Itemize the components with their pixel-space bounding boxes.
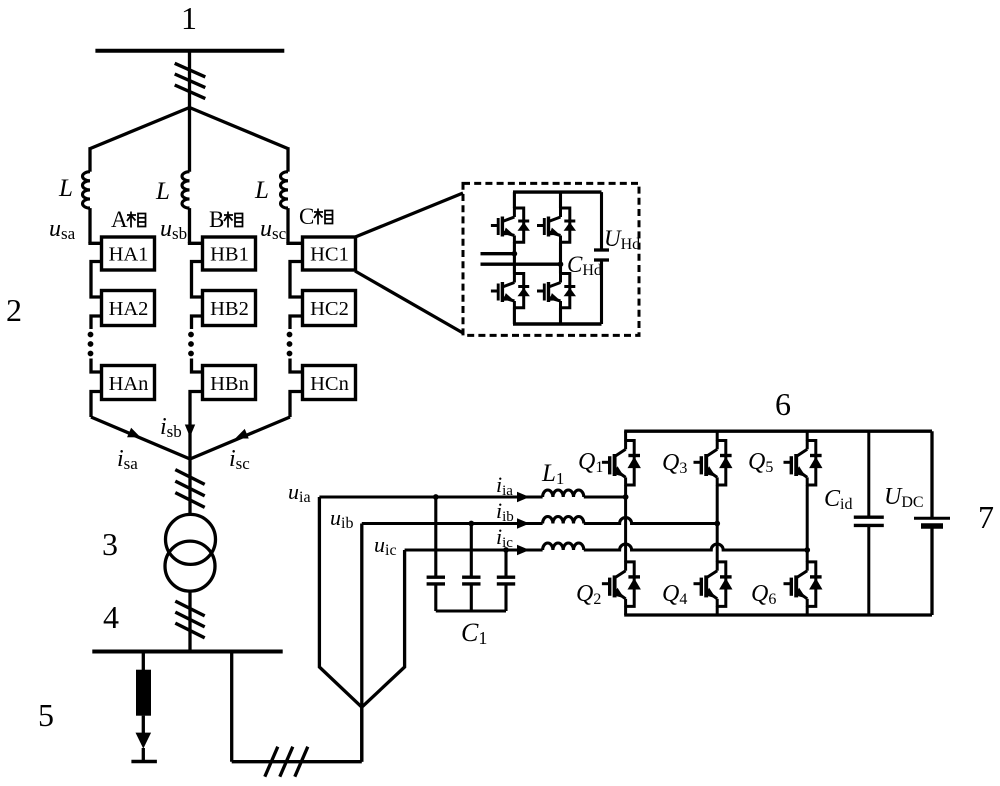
capacitor C1a wire xyxy=(434,497,437,577)
inductor L1 phase c xyxy=(543,543,584,550)
H-bridge top rail xyxy=(513,190,602,193)
svg-text:HA1: HA1 xyxy=(109,244,149,266)
wire HC1 to HC2 xyxy=(290,262,303,298)
H-bridge bottom rail xyxy=(513,322,602,325)
capacitor C_id bottom wire xyxy=(867,525,870,615)
wire bottom horizontal link xyxy=(232,760,362,763)
wire diagonal C to star point xyxy=(190,417,290,459)
svg-text:2: 2 xyxy=(6,292,22,328)
wire fan left diagonal xyxy=(90,108,190,149)
svg-text:4: 4 xyxy=(103,599,119,635)
svg-text:HB1: HB1 xyxy=(210,244,249,266)
isolator slashes above transformer xyxy=(175,470,204,485)
transformer T primary winding xyxy=(166,514,216,564)
IGBT Q4 xyxy=(694,561,733,607)
leg2 mid wire xyxy=(716,485,719,562)
wire HCn output xyxy=(290,392,303,418)
node C1a tap xyxy=(433,494,439,500)
wire phase B drop xyxy=(188,108,191,172)
node left leg midpoint xyxy=(512,251,518,257)
callout line lower xyxy=(355,271,463,333)
wire into HCn xyxy=(290,359,303,373)
bus 1 xyxy=(95,49,284,53)
wire coil a to leg xyxy=(584,495,626,498)
IGBT T1 (inset top-left) xyxy=(491,208,530,243)
H-bridge module HAn xyxy=(102,366,155,400)
IGBT Q3 xyxy=(694,440,733,486)
H-bridge module HBn xyxy=(203,366,256,400)
wire below HC2 xyxy=(290,316,303,329)
leg2 top wire xyxy=(716,431,719,440)
node C1b tap xyxy=(468,521,474,527)
svg-text:L: L xyxy=(254,177,269,204)
dashed detail box xyxy=(463,183,639,335)
capacitor C_id plates xyxy=(854,516,884,519)
wire u_ic diagonal xyxy=(362,550,405,707)
wire HBn output xyxy=(190,392,203,460)
capacitor C1a lower wire xyxy=(434,584,437,611)
H-bridge module HA1 xyxy=(102,237,155,270)
wire bus4 to load xyxy=(142,652,145,671)
wire coil b to leg1 hop xyxy=(584,518,717,524)
wire coil c with two hops xyxy=(584,544,807,550)
svg-text:HA2: HA2 xyxy=(109,298,149,320)
wire into HA1 xyxy=(90,242,102,243)
H-bridge left leg middle wire xyxy=(513,242,516,273)
leg3 top wire xyxy=(806,431,809,440)
battery U_DC short plate xyxy=(921,523,943,529)
battery U_DC long plate xyxy=(914,517,950,520)
H-bridge module HC2 xyxy=(303,291,356,326)
capacitor C_Hd bottom wire xyxy=(600,260,603,324)
svg-text:5: 5 xyxy=(38,697,54,733)
svg-text:6: 6 xyxy=(775,386,791,422)
IGBT T4 (inset bottom-right) xyxy=(537,273,576,308)
wire into HC1 xyxy=(288,242,303,243)
capacitor C1b plates xyxy=(462,576,480,579)
capacitor C1a plates xyxy=(427,576,445,579)
leg2 bottom wire xyxy=(716,606,719,615)
inductor L phase B xyxy=(182,172,190,208)
wire HA1 to HA2 xyxy=(91,262,102,298)
ellipsis dots column A xyxy=(88,332,94,338)
svg-text:1: 1 xyxy=(181,0,197,36)
H-bridge left leg bottom wire xyxy=(513,308,516,324)
IGBT Q2 xyxy=(602,561,641,607)
capacitor C1c lower wire xyxy=(504,584,507,611)
capacitor C_Hd plates xyxy=(594,248,609,251)
node right leg midpoint xyxy=(558,261,564,267)
wire phase C drop xyxy=(286,147,289,172)
load impedance (filled bar) xyxy=(136,670,151,716)
inverter bottom rail xyxy=(624,613,932,616)
wire transformer to bus 4 xyxy=(188,591,191,652)
hanzi 相 (phase) C xyxy=(314,209,333,225)
capacitor bank bottom bus xyxy=(436,609,506,612)
IGBT Q1 xyxy=(602,440,641,486)
svg-text:HCn: HCn xyxy=(310,373,349,395)
wire bus1 to fan point xyxy=(188,51,191,108)
H-bridge right leg bottom wire xyxy=(559,308,562,324)
svg-text:HBn: HBn xyxy=(210,373,249,395)
capacitor C1b wire xyxy=(470,524,473,578)
wire below HA2 xyxy=(91,316,102,329)
wire phase c to coil xyxy=(405,548,543,551)
battery U_DC top wire xyxy=(930,431,933,518)
H-bridge module HB2 xyxy=(203,291,256,326)
isolator slash marks on feeder xyxy=(175,63,206,77)
wire into HB1 xyxy=(190,242,203,243)
svg-text:7: 7 xyxy=(978,499,994,535)
H-bridge module HC1 xyxy=(303,237,356,270)
svg-text:HC1: HC1 xyxy=(310,244,349,266)
H-bridge module HCn xyxy=(303,366,356,400)
three-phase slashes xyxy=(265,747,278,777)
capacitor C_Hd top wire xyxy=(600,192,603,250)
wire under coil C xyxy=(286,208,289,243)
wire HAn output xyxy=(91,392,102,418)
wire under coil B xyxy=(188,208,191,243)
wire junction up from link xyxy=(360,707,363,762)
svg-text:L: L xyxy=(58,175,73,202)
H-bridge left leg top wire xyxy=(513,192,516,208)
arrow i_ib xyxy=(517,518,530,528)
leg1 bottom wire xyxy=(624,606,627,615)
svg-text:A: A xyxy=(111,207,128,232)
AC terminal upper stub xyxy=(481,252,515,255)
svg-text:C: C xyxy=(299,204,314,229)
svg-text:HB2: HB2 xyxy=(210,298,249,320)
AC terminal lower stub xyxy=(481,263,561,266)
isolator slashes below transformer xyxy=(175,601,204,616)
IGBT Q5 xyxy=(784,440,823,486)
wire into HAn xyxy=(91,359,102,373)
capacitor C1c plates xyxy=(497,576,515,579)
wire under coil A xyxy=(88,208,91,243)
inductor L1 phase a xyxy=(543,490,584,497)
hanzi 相 (phase) A xyxy=(127,212,146,228)
capacitor C1b lower wire xyxy=(470,584,473,611)
leg3 mid wire xyxy=(806,485,809,562)
IGBT T2 (inset top-right) xyxy=(537,208,576,243)
arrow i_sa xyxy=(127,428,143,442)
wire fan right diagonal xyxy=(190,108,289,149)
wire phase b to coil xyxy=(362,522,543,525)
arrow i_sb xyxy=(185,425,195,438)
IGBT Q6 xyxy=(784,561,823,607)
wire phase a to coil xyxy=(319,495,542,498)
wire diagonal A to star point xyxy=(91,417,190,459)
H-bridge right leg middle wire xyxy=(559,242,562,273)
wire bus4 down leg xyxy=(230,652,233,762)
H-bridge module HB1 xyxy=(203,237,256,270)
wire u_ia diagonal xyxy=(319,497,361,707)
arrow i_ia xyxy=(517,492,530,502)
arrow i_sc xyxy=(233,429,249,443)
wire below HB2 xyxy=(192,316,203,329)
H-bridge module HA2 xyxy=(102,291,155,326)
node phase a leg xyxy=(623,494,629,500)
wire u_ib vertical xyxy=(360,524,363,762)
capacitor C_id top wire xyxy=(867,431,870,517)
wire load to arrow xyxy=(142,716,145,733)
svg-text:HAn: HAn xyxy=(109,373,149,395)
leg3 bottom wire xyxy=(806,606,809,615)
H-bridge right leg top wire xyxy=(559,192,562,208)
svg-text:L: L xyxy=(155,178,170,205)
node C1c tap xyxy=(503,547,509,553)
inverter top rail xyxy=(624,430,932,433)
leg1 top wire xyxy=(624,431,627,440)
inductor L1 phase b xyxy=(543,517,584,524)
load terminator bar xyxy=(131,760,157,763)
wire star point to transformer xyxy=(188,458,191,516)
node phase b leg xyxy=(714,521,720,527)
wire into HBn xyxy=(192,359,203,373)
capacitor C1c wire xyxy=(504,550,507,577)
load arrow head xyxy=(136,733,152,749)
wire HB1 to HB2 xyxy=(192,262,203,298)
bus 4 xyxy=(92,650,282,654)
transformer T secondary winding xyxy=(165,541,215,591)
hanzi 相 (phase) B xyxy=(224,212,243,228)
svg-text:HC2: HC2 xyxy=(310,298,349,320)
battery U_DC bottom wire xyxy=(930,526,933,615)
svg-text:3: 3 xyxy=(102,526,118,562)
IGBT T3 (inset bottom-left) xyxy=(491,273,530,308)
wire arrow to terminator xyxy=(142,748,145,762)
ellipsis dots column B xyxy=(188,332,194,338)
inductor L phase A xyxy=(83,172,91,208)
inductor L phase C xyxy=(281,172,289,208)
callout line upper xyxy=(354,193,463,238)
ellipsis dots column C xyxy=(287,332,293,338)
arrow i_ic xyxy=(517,545,530,555)
wire phase A drop xyxy=(88,147,91,172)
leg1 mid wire xyxy=(624,485,627,562)
node phase c leg xyxy=(804,547,810,553)
svg-text:B: B xyxy=(209,207,224,232)
